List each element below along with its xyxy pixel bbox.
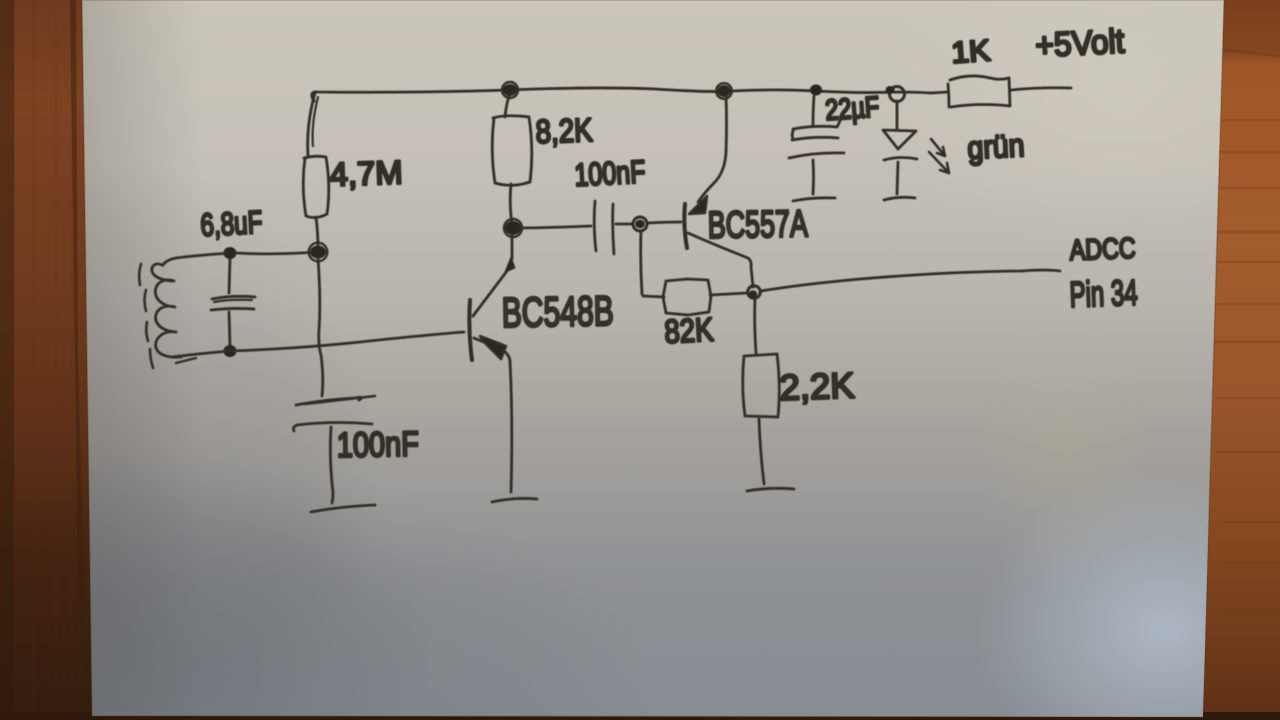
inductor L1 coil xyxy=(152,264,181,357)
ground below 2,2K xyxy=(747,488,794,491)
svg-text:8,2K: 8,2K xyxy=(535,111,593,150)
wire: node C to BC557A base xyxy=(648,222,681,223)
wire: node A down to 100nF xyxy=(318,258,323,396)
node: 6.8uF bottom junction xyxy=(224,345,237,357)
transistor Q2 BC557A xyxy=(684,95,753,287)
wire: node D to ADCC output xyxy=(761,270,1060,291)
LED D1 green xyxy=(883,101,917,194)
ground below 100nF xyxy=(311,505,375,512)
resistor R5 1K xyxy=(931,76,1071,107)
svg-text:6,8uF: 6,8uF xyxy=(199,204,263,243)
resistor R3 82K xyxy=(641,231,747,315)
node: rail junction above LED xyxy=(886,86,905,102)
resistor R1 4,7M xyxy=(303,93,329,248)
capacitor C4 22uF xyxy=(789,96,844,194)
svg-text:82K: 82K xyxy=(663,310,714,350)
dashed core line xyxy=(139,264,153,368)
svg-text:100nF: 100nF xyxy=(573,153,646,193)
capacitor C1 6,8uF xyxy=(211,258,255,347)
node A: junction 4.7M bottom / coil top xyxy=(309,243,328,262)
svg-text:4,7M: 4,7M xyxy=(329,153,403,193)
resistor R4 2,2K xyxy=(743,297,780,484)
ground below LED xyxy=(884,197,915,200)
svg-text:grün: grün xyxy=(966,127,1025,166)
node: rail junction above 8.2K xyxy=(502,82,518,98)
wire: coil bottom / base wire to BC548B xyxy=(172,332,464,357)
ground below 22uF xyxy=(793,198,835,201)
node D: collector junction xyxy=(748,286,761,299)
ground below BC548B xyxy=(492,498,537,502)
svg-text:+5Volt: +5Volt xyxy=(1034,22,1125,65)
node C: junction right of coupling cap xyxy=(633,217,647,231)
svg-text:Pin 34: Pin 34 xyxy=(1069,272,1138,315)
node: rail junction above BC557A emitter xyxy=(716,83,732,99)
wire: 6.8uF junction to coil xyxy=(163,254,224,266)
transistor Q1 BC548B xyxy=(469,236,515,362)
svg-text:22µF: 22µF xyxy=(824,91,880,127)
svg-text:2,2K: 2,2K xyxy=(779,364,855,408)
capacitor C2 100nF bypass xyxy=(293,396,375,503)
capacitor C3 100nF coupling xyxy=(594,201,632,254)
svg-text:BC548B: BC548B xyxy=(501,287,614,336)
node B: junction below 8.2K xyxy=(504,219,522,237)
wire: node B to coupling cap xyxy=(522,226,591,228)
wire: +5V top supply rail xyxy=(312,88,931,101)
svg-text:BC557A: BC557A xyxy=(707,203,808,247)
svg-text:ADCC: ADCC xyxy=(1069,233,1136,267)
svg-text:100nF: 100nF xyxy=(336,425,419,465)
svg-text:1K: 1K xyxy=(950,34,991,70)
wire: BC548B emitter down xyxy=(510,362,512,492)
resistor R2 8,2K xyxy=(492,96,532,224)
node: 6.8uF top junction xyxy=(224,247,237,259)
LED light arrows xyxy=(929,139,949,173)
wire: node A to 6.8uF top xyxy=(236,253,310,254)
node: rail junction above 22uF xyxy=(810,85,822,96)
